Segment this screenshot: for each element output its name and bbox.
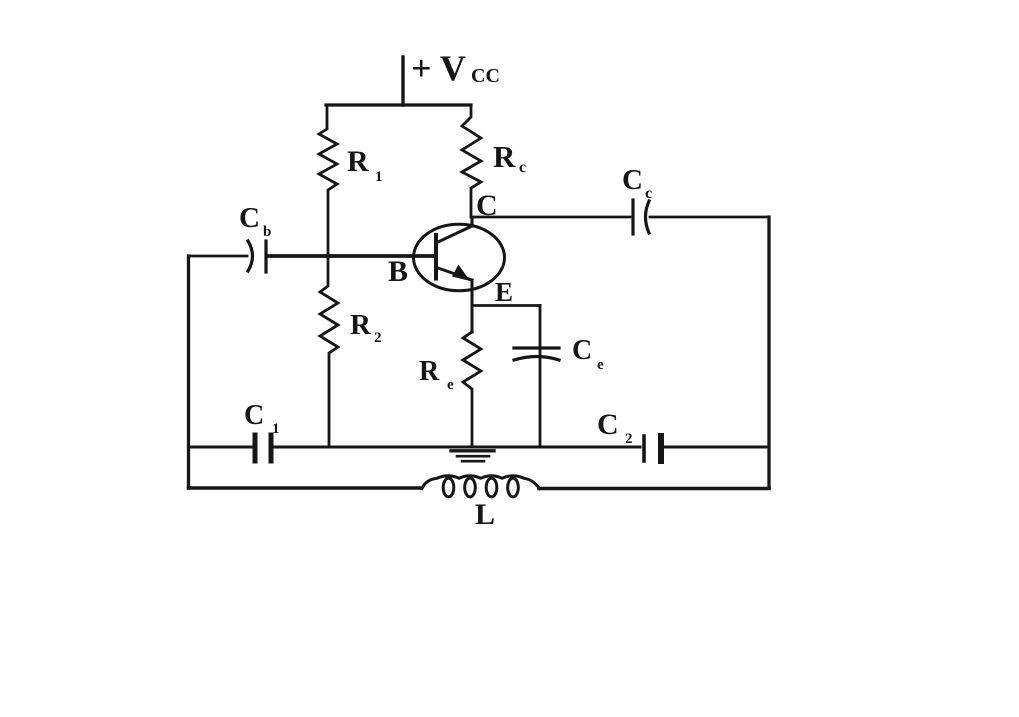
resistor R2 (320, 256, 338, 447)
svg-text:L: L (475, 498, 495, 531)
svg-text:1: 1 (375, 169, 383, 185)
svg-text:2: 2 (374, 330, 382, 346)
resistor Re (463, 332, 481, 447)
svg-text:e: e (447, 377, 454, 393)
transistor Q1 (414, 217, 505, 332)
svg-text:R: R (347, 145, 369, 178)
svg-text:C: C (622, 164, 643, 196)
svg-text:c: c (645, 185, 652, 202)
svg-text:C: C (244, 400, 264, 431)
svg-text:C: C (239, 202, 260, 234)
wire emitter horizontal (472, 304, 540, 307)
wire bottom outer left (189, 486, 422, 490)
svg-text:C: C (572, 335, 592, 366)
wire collector to Cc (471, 216, 630, 219)
wire right vertical (767, 217, 770, 488)
resistor Rc (462, 105, 481, 217)
wire bottom bus (189, 446, 770, 449)
svg-text:R: R (419, 356, 440, 387)
svg-text:b: b (263, 224, 271, 240)
svg-text:R: R (350, 309, 372, 341)
svg-text:R: R (493, 139, 516, 174)
svg-text:c: c (519, 159, 526, 176)
svg-text:e: e (597, 357, 604, 373)
wire base (267, 254, 436, 258)
power stub +Vcc (401, 57, 404, 105)
resistor R1 (319, 105, 337, 256)
capacitor Cc (633, 200, 649, 234)
wire left vertical (187, 256, 190, 488)
ground (451, 451, 494, 461)
wire left to Cb (189, 255, 248, 258)
wire bottom outer right (539, 487, 769, 491)
svg-text:B: B (388, 255, 408, 288)
wire top rail (326, 103, 471, 106)
capacitor C1 (255, 435, 271, 461)
svg-text:+ V: + V (411, 48, 466, 88)
capacitor C2 (644, 436, 661, 461)
wire Ce vertical (539, 306, 542, 448)
svg-text:1: 1 (272, 421, 280, 437)
svg-text:CC: CC (471, 65, 500, 87)
svg-text:E: E (495, 277, 513, 307)
svg-text:C: C (597, 408, 619, 441)
capacitor Cb (248, 241, 266, 272)
svg-text:2: 2 (625, 431, 633, 447)
capacitor Ce (514, 348, 559, 360)
inductor L (422, 476, 540, 497)
wire Cc to right rail (650, 216, 769, 219)
